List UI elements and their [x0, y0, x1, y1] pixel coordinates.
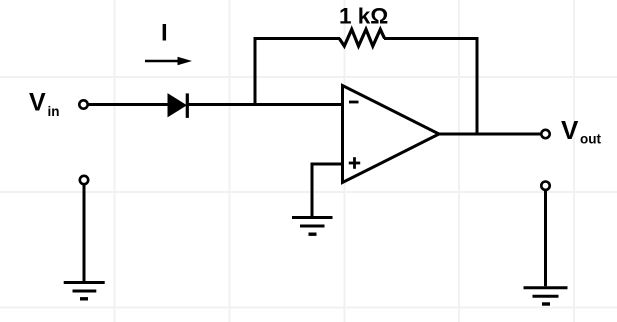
svg-text:1 kΩ: 1 kΩ: [339, 3, 388, 28]
wire right ground: [544, 190, 547, 286]
ground right: [524, 288, 568, 304]
svg-text:V: V: [561, 115, 579, 145]
svg-text:in: in: [48, 104, 60, 119]
current arrow: [145, 57, 192, 66]
wire op-amp output: [437, 133, 541, 136]
label non-inverting input +: [349, 157, 360, 169]
op-amp U1: [343, 86, 440, 183]
wire feedback top left segment: [254, 37, 341, 40]
wire feedback right drop: [476, 37, 479, 134]
resistor 1kΩ: [339, 29, 384, 46]
wire Vin terminal to diode: [88, 103, 169, 106]
svg-text:out: out: [580, 132, 601, 147]
terminal Vin: [79, 100, 87, 108]
label V_out: [561, 115, 601, 147]
terminal Vout: [541, 130, 549, 138]
terminal left ground: [80, 176, 88, 184]
wire diode to op-amp inverting input: [187, 103, 343, 106]
terminal right ground: [541, 182, 549, 190]
label inverting input -: [349, 101, 359, 104]
diode D1: [168, 93, 187, 118]
svg-text:V: V: [29, 89, 46, 117]
wire feedback tap vertical: [254, 37, 257, 105]
wire non-inverting input to ground: [311, 163, 314, 217]
label V_in: [29, 89, 60, 120]
ground left: [64, 283, 105, 299]
wire non-inverting input horizontal: [311, 163, 343, 166]
wire feedback top right segment: [384, 37, 479, 40]
svg-text:I: I: [161, 20, 168, 47]
wire left ground: [83, 184, 86, 281]
ground middle: [292, 218, 333, 235]
